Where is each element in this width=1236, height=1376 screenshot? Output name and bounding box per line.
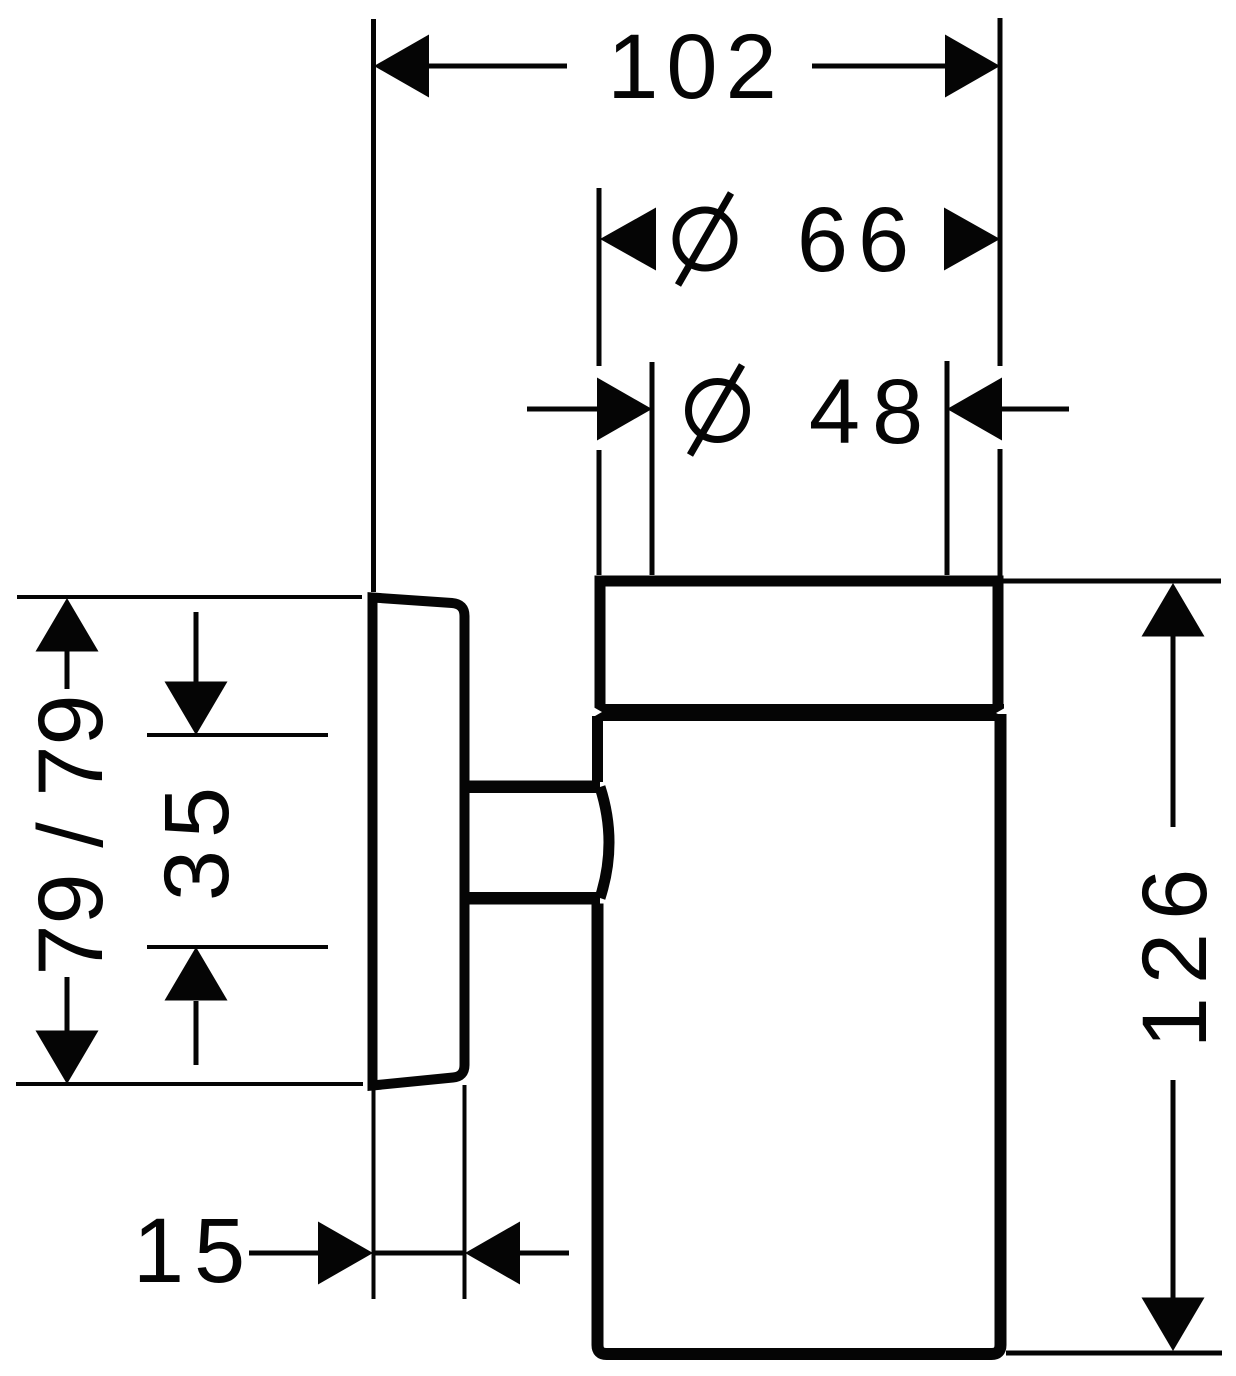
wall plate	[373, 598, 465, 1086]
svg-text:126: 126	[1124, 856, 1226, 1049]
dimension 102: right arrow	[945, 35, 1000, 98]
dimension d48: left tail line	[527, 407, 597, 412]
holder rim bottom band	[595, 704, 1004, 721]
dimension 79/79: top extension line	[17, 595, 362, 599]
dimension 79/79: bottom extension line	[16, 1082, 363, 1086]
dimension d66: left arrow	[600, 208, 656, 271]
svg-text:79 / 79: 79 / 79	[20, 694, 122, 975]
dimension 102: left arrow	[374, 35, 429, 98]
dimension 15: left-pointing arrow	[465, 1222, 520, 1285]
dimension 126: down arrow	[1142, 1298, 1205, 1352]
dimension 126: lower dim line	[1171, 1080, 1176, 1300]
holder body outline	[598, 714, 1001, 1354]
dimension d66: diameter symbol circle	[676, 210, 734, 268]
stem top line	[464, 781, 600, 794]
svg-text:102: 102	[607, 16, 785, 118]
dimension 102: left dim line	[427, 64, 567, 69]
dimension 35: lower dim line	[194, 1001, 199, 1065]
dimension 15: right extension line	[463, 1085, 467, 1299]
dimension 35: top tick line	[147, 733, 328, 737]
dimension 102: right extension line upper	[998, 18, 1003, 366]
dimension 35: down arrow	[165, 682, 228, 736]
dimension d66: diameter symbol slash	[678, 193, 731, 285]
dimension 126: top extension line	[1003, 579, 1221, 584]
dimension d66: left extension line lower	[597, 450, 602, 575]
dimension 79/79: upper dim line	[65, 651, 70, 689]
dimension 79/79: down arrow	[36, 1031, 99, 1085]
stem-to-holder transition arc	[600, 787, 609, 898]
dimension 126: up arrow	[1142, 583, 1205, 637]
dimension d48: diameter symbol circle	[689, 382, 747, 440]
dimension d48: left extension line	[650, 362, 655, 575]
dimension d48: right tail line	[1002, 407, 1069, 412]
stem bottom line	[464, 892, 600, 905]
dimension 15: left tail line	[249, 1251, 318, 1256]
dimension d48: left arrow	[597, 378, 652, 441]
svg-text:48: 48	[809, 361, 935, 463]
svg-text:15: 15	[133, 1200, 255, 1302]
holder rim band left notch	[588, 704, 602, 720]
dimension d66: left extension line upper	[597, 188, 602, 366]
dimension 35: bottom tick line	[147, 945, 328, 949]
dimension 15: right tail line	[520, 1251, 569, 1256]
svg-text:66: 66	[797, 189, 919, 291]
dimension 126: bottom extension line	[1006, 1351, 1222, 1356]
dimension 102: left extension line	[371, 19, 376, 592]
dimension 102: right extension line lower	[998, 449, 1003, 576]
dimension 35: up arrow	[165, 947, 228, 1001]
dimension d48: diameter symbol slash	[690, 365, 742, 455]
dimension 15: right-pointing arrow	[318, 1222, 373, 1285]
dimension 102: right dim line	[812, 64, 945, 69]
dimension 79/79: up arrow	[36, 598, 99, 652]
holder rim band right notch	[996, 705, 1010, 720]
holder body left edge upper segment	[592, 716, 603, 782]
dimension d66: right arrow	[944, 208, 1000, 271]
svg-text:35: 35	[146, 775, 248, 901]
dimension 15: left extension line	[372, 1090, 376, 1299]
dimension 15: middle dim line	[373, 1251, 465, 1256]
dimension d48: right arrow	[947, 378, 1002, 441]
dimension 126: upper dim line	[1171, 636, 1176, 827]
dimension d48: right extension line	[945, 361, 950, 575]
dimension 79/79: lower dim line	[65, 977, 70, 1031]
dimension 35: upper dim line	[194, 612, 199, 682]
holder rim	[600, 581, 998, 712]
